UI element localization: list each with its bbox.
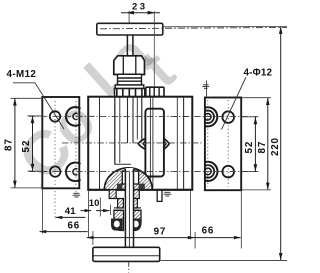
handle bar bottom xyxy=(93,247,160,261)
left plate port arc bottom xyxy=(66,163,81,182)
centerline right bolt column xyxy=(227,100,229,187)
break mark left xyxy=(73,193,80,197)
gland nut C xyxy=(111,210,141,230)
vent valve stem lines xyxy=(150,97,153,188)
seat cone right xyxy=(164,138,170,149)
step line xyxy=(115,163,131,165)
centerline left port column xyxy=(75,101,77,198)
leader 4-phi12 xyxy=(222,77,247,130)
dim row2 arrow xyxy=(56,216,86,218)
body right wall lines xyxy=(176,97,178,190)
vent valve knurled cap xyxy=(146,87,164,97)
dim 52 left line xyxy=(32,116,34,171)
dim 23 left arrow xyxy=(126,11,134,15)
dim row1 arrows xyxy=(81,210,92,212)
valve stem upper xyxy=(127,35,132,56)
left plate bolt hole bottom xyxy=(50,166,60,176)
right plate bolt hole top xyxy=(222,111,234,123)
lower stem xyxy=(125,168,134,247)
body xyxy=(88,97,192,190)
centerline right port column above plate xyxy=(206,81,208,98)
body bottom edge re-draw over dome xyxy=(88,189,192,191)
right ext lines xyxy=(242,116,259,118)
centerline hole row lower xyxy=(29,171,257,173)
right flange plate xyxy=(205,98,241,191)
dim 220 right xyxy=(280,27,282,261)
dim 23 right arrow xyxy=(148,11,156,15)
dim 23 ext line left xyxy=(128,11,130,23)
svg-text:87: 87 xyxy=(4,138,15,151)
body inner wall left xyxy=(99,97,101,190)
hex nut xyxy=(114,56,145,75)
svg-text:4-M12: 4-M12 xyxy=(7,69,37,80)
svg-text:87: 87 xyxy=(257,141,268,154)
dim row3 arrow xyxy=(40,231,88,233)
svg-text:66: 66 xyxy=(202,226,215,237)
leader 4-M12 xyxy=(13,83,64,129)
bottom ext verticals xyxy=(43,189,242,249)
left flange plate xyxy=(42,97,79,188)
dark lobes with holes xyxy=(111,219,123,231)
centerline right port column xyxy=(207,100,209,187)
dim 87 right xyxy=(267,98,269,190)
dim 23 ext line right / vent valve axis xyxy=(153,11,155,97)
svg-text:23: 23 xyxy=(132,2,148,13)
svg-text:4-Φ12: 4-Φ12 xyxy=(244,67,273,78)
right plate counterbore top xyxy=(198,107,217,181)
bonnet block A xyxy=(109,190,139,199)
svg-text:97: 97 xyxy=(154,227,167,238)
left plate bolt hole top xyxy=(50,111,60,121)
break mark top right xyxy=(202,85,209,89)
svg-text:10: 10 xyxy=(89,198,100,209)
axis below bar xyxy=(128,262,130,273)
bonnet step lines xyxy=(109,199,141,208)
centerline hole row upper xyxy=(29,115,257,117)
dim 52 right xyxy=(254,117,256,172)
seat cone left xyxy=(138,138,145,149)
break mark right xyxy=(164,192,172,196)
dim row4 line xyxy=(87,237,241,239)
centerline left bolt column xyxy=(54,101,56,220)
svg-text:66: 66 xyxy=(68,221,81,232)
bonnet flange xyxy=(115,85,144,89)
bore lines upper valve xyxy=(115,97,142,165)
sight slot window xyxy=(145,109,164,177)
svg-text:52: 52 xyxy=(21,140,32,153)
handle bar top xyxy=(97,23,163,35)
bar centerline xyxy=(100,27,287,28)
lower valve dome section xyxy=(104,168,152,190)
left plate port arc top xyxy=(66,107,81,126)
bonnet neck B xyxy=(118,199,138,209)
dim 52 left: ext ticks xyxy=(28,115,43,117)
bonnet base ribbed xyxy=(115,89,145,97)
right plate bolt hole bottom xyxy=(222,166,234,178)
svg-text:220: 220 xyxy=(270,137,281,156)
dim 23 line xyxy=(121,12,160,14)
dim 87 left: ext ticks xyxy=(11,97,43,99)
dim 87 left line xyxy=(14,98,16,188)
right plate counterbore bottom xyxy=(205,168,212,175)
packing dark right xyxy=(139,184,145,190)
gland rings xyxy=(115,74,144,88)
svg-text:41: 41 xyxy=(65,206,76,217)
watermark xyxy=(5,21,187,193)
packing dark left xyxy=(117,184,122,190)
drain stub xyxy=(157,190,163,201)
svg-text:52: 52 xyxy=(244,141,255,154)
dome packing nut xyxy=(122,171,138,184)
centerline mid port axis xyxy=(62,142,202,144)
